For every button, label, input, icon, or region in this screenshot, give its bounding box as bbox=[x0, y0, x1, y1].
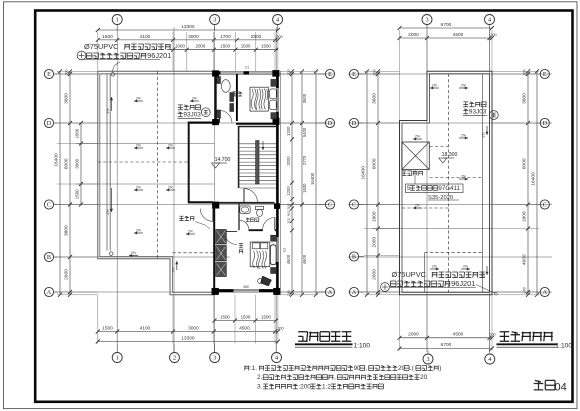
svg-text:200: 200 bbox=[287, 70, 291, 76]
water tank label bbox=[402, 171, 423, 176]
svg-text:2%: 2% bbox=[482, 133, 486, 138]
grid bubble 3 bottom right plan bbox=[423, 351, 433, 365]
toilet and basin bottom bathroom bbox=[240, 206, 264, 217]
svg-text:2%: 2% bbox=[461, 84, 466, 88]
svg-text:2%: 2% bbox=[461, 134, 466, 138]
svg-text:2600: 2600 bbox=[372, 269, 378, 280]
svg-text:E: E bbox=[543, 71, 547, 78]
grid bubble D right of left plan bbox=[318, 118, 335, 127]
svg-text:4: 4 bbox=[488, 356, 491, 363]
svg-text:2%: 2% bbox=[106, 109, 110, 114]
grid bubble 4 top bbox=[273, 15, 283, 31]
hall to terrace door arc bbox=[200, 209, 213, 222]
title five floor plan bbox=[295, 332, 370, 350]
svg-text:900: 900 bbox=[287, 210, 291, 216]
svg-text:2800: 2800 bbox=[251, 34, 262, 40]
svg-text:3.: 3. bbox=[257, 384, 263, 391]
column 4-E bbox=[273, 70, 280, 76]
svg-text:200: 200 bbox=[523, 287, 527, 293]
washbasin top bathroom bbox=[217, 77, 234, 119]
svg-text:C: C bbox=[352, 202, 356, 209]
svg-text:D: D bbox=[352, 120, 357, 127]
room label bathroom bbox=[246, 218, 259, 222]
svg-text:13300: 13300 bbox=[181, 24, 195, 30]
svg-text:2%: 2% bbox=[463, 265, 468, 269]
bottom dimension chain right plan bbox=[398, 295, 496, 351]
svg-text:1: 1 bbox=[116, 17, 119, 24]
grid bubble E right right plan bbox=[539, 69, 549, 78]
svg-text:1630: 1630 bbox=[302, 183, 307, 193]
svg-text:200: 200 bbox=[523, 70, 527, 76]
top block east wall with window bbox=[276, 71, 278, 125]
svg-text:6700: 6700 bbox=[441, 22, 452, 28]
svg-text:3600: 3600 bbox=[302, 93, 307, 103]
grid bubble D right right plan bbox=[539, 118, 549, 127]
stair treads bbox=[240, 144, 278, 188]
bedroom south wall with window bbox=[212, 289, 279, 292]
svg-text:1: 1 bbox=[116, 355, 119, 362]
svg-text:1:100: 1:100 bbox=[354, 343, 371, 350]
svg-text:1800: 1800 bbox=[372, 211, 378, 222]
svg-text:1500: 1500 bbox=[102, 326, 113, 332]
svg-text:2%: 2% bbox=[461, 175, 466, 179]
svg-text:.: . bbox=[426, 374, 428, 381]
grid bubble 4 bottom right plan bbox=[485, 351, 495, 365]
svg-text:1500: 1500 bbox=[261, 44, 271, 49]
hall west wall bbox=[188, 122, 190, 204]
svg-text:A: A bbox=[543, 289, 548, 296]
svg-text:A: A bbox=[328, 289, 333, 296]
top block west wall bbox=[214, 71, 216, 123]
bed bottom bedroom bbox=[250, 235, 276, 273]
top block north wall with windows bbox=[213, 72, 279, 75]
svg-text:1500: 1500 bbox=[220, 44, 230, 49]
level mark 18.300 roof bbox=[439, 152, 458, 163]
svg-text:A: A bbox=[352, 289, 357, 296]
stair hall lower door arc bbox=[244, 189, 257, 202]
svg-text:D: D bbox=[543, 120, 548, 127]
roof gutter line bbox=[482, 74, 484, 292]
bathroom bedroom divider wall bbox=[239, 204, 278, 231]
svg-text:2%: 2% bbox=[415, 204, 420, 208]
bedroom door arc bbox=[224, 232, 237, 245]
svg-text:C2: C2 bbox=[283, 248, 287, 253]
svg-text:3: 3 bbox=[426, 356, 429, 363]
east wall lower with bedroom window bbox=[276, 123, 278, 295]
svg-text:200: 200 bbox=[373, 70, 377, 76]
column at 4-D bbox=[273, 118, 279, 125]
svg-text:3: 3 bbox=[213, 17, 216, 24]
svg-text:,: , bbox=[365, 365, 367, 372]
grid bubble C left right plan bbox=[349, 200, 364, 209]
svg-text:E: E bbox=[328, 71, 332, 78]
grid bubble 1 bottom bbox=[112, 344, 122, 363]
bathroom shower door arc bbox=[239, 220, 249, 230]
grid bubble A right right plan bbox=[539, 287, 549, 296]
svg-text:2%: 2% bbox=[136, 144, 141, 148]
svg-text:3600: 3600 bbox=[64, 93, 70, 104]
svg-text:16400: 16400 bbox=[531, 172, 537, 186]
grid bubble C right right plan bbox=[539, 200, 549, 209]
svg-text:6000: 6000 bbox=[64, 158, 70, 169]
expansion joint annotation roof bbox=[463, 102, 498, 120]
svg-text:2%: 2% bbox=[432, 84, 437, 88]
svg-text:4100: 4100 bbox=[140, 34, 151, 40]
top dimension chain left plan bbox=[96, 24, 283, 71]
svg-text:2: 2 bbox=[173, 355, 176, 362]
svg-text:1000: 1000 bbox=[175, 44, 185, 49]
svg-text:2.: 2. bbox=[257, 374, 263, 381]
grid bubble E right of left plan bbox=[318, 69, 335, 78]
expansion joint dashed lines terrace bbox=[98, 71, 215, 258]
svg-text:E: E bbox=[47, 71, 51, 78]
svg-text:E: E bbox=[352, 71, 356, 78]
sheet number bbox=[534, 380, 567, 393]
stairwell enclosure bbox=[238, 127, 276, 189]
column 3-A bbox=[212, 288, 219, 294]
roof slope arrows bbox=[413, 84, 489, 278]
bottom dimension chain left plan bbox=[96, 295, 284, 344]
right dimension chain left plan bbox=[280, 69, 318, 296]
grid bubble E left right plan bbox=[349, 69, 364, 78]
svg-text:200: 200 bbox=[276, 35, 282, 39]
svg-text::1.: :1. bbox=[250, 365, 257, 372]
left dimension chain right plan bbox=[361, 69, 400, 296]
room label bedroom top (vertical) bbox=[233, 92, 243, 96]
roof ridge and valley dashed lines bbox=[402, 74, 484, 292]
roof outline outer bbox=[400, 71, 493, 294]
svg-text:Ø75UPVC: Ø75UPVC bbox=[392, 270, 427, 279]
svg-text:D: D bbox=[328, 120, 333, 127]
svg-text:C1: C1 bbox=[245, 66, 250, 70]
svg-text:1:2: 1:2 bbox=[322, 384, 331, 391]
room label bedroom bottom (vertical) bbox=[239, 244, 243, 254]
grid bubble 3 top bbox=[210, 15, 220, 31]
svg-text:C: C bbox=[543, 202, 547, 209]
wall between bath and bedroom top block bbox=[236, 74, 238, 121]
svg-text:1200: 1200 bbox=[286, 186, 291, 196]
column 3-E bbox=[212, 71, 218, 77]
svg-text:4600: 4600 bbox=[302, 254, 307, 264]
svg-text:4100: 4100 bbox=[140, 326, 151, 332]
svg-text:2%: 2% bbox=[136, 186, 141, 190]
D row wall bbox=[189, 123, 279, 124]
svg-text:2000: 2000 bbox=[196, 44, 206, 49]
grid bubble C right of left plan bbox=[318, 200, 335, 209]
svg-text:6700: 6700 bbox=[441, 342, 452, 348]
svg-text:200: 200 bbox=[65, 70, 69, 76]
floor drain bottom corner bbox=[109, 252, 113, 256]
east eave line bbox=[279, 71, 281, 294]
right dimension chain right plan bbox=[492, 69, 539, 296]
desk chair corner bbox=[258, 276, 272, 286]
svg-text:2%: 2% bbox=[168, 186, 173, 190]
grid bubble A right of left plan bbox=[318, 287, 335, 296]
roof outline inner bbox=[402, 74, 490, 292]
svg-text:2%: 2% bbox=[168, 144, 173, 148]
svg-text:96J201: 96J201 bbox=[147, 51, 171, 60]
svg-text:97G411: 97G411 bbox=[438, 185, 460, 192]
grid bubble E left bbox=[44, 69, 57, 78]
terrace parapet wall bbox=[98, 71, 215, 294]
svg-text:2%: 2% bbox=[106, 210, 110, 215]
expansion joint annotation left plan bbox=[178, 105, 211, 119]
bed top bedroom bbox=[250, 79, 277, 119]
svg-text:4500: 4500 bbox=[239, 326, 250, 332]
column 4-C bbox=[274, 204, 280, 209]
grid bubble 3 top right plan bbox=[422, 15, 432, 29]
grid bubble C left bbox=[44, 200, 57, 209]
grid bubble B left right plan bbox=[349, 252, 364, 261]
svg-text:16400: 16400 bbox=[310, 172, 315, 185]
svg-text:D: D bbox=[47, 120, 52, 127]
svg-text:2600: 2600 bbox=[64, 269, 70, 280]
svg-text:96J201: 96J201 bbox=[451, 279, 475, 288]
svg-text:A: A bbox=[47, 289, 52, 296]
svg-text:3000: 3000 bbox=[75, 158, 80, 168]
svg-text:2770: 2770 bbox=[302, 155, 307, 165]
svg-text:3: 3 bbox=[213, 355, 216, 362]
door top bathroom with arc bbox=[220, 111, 233, 124]
svg-text:B: B bbox=[352, 254, 356, 261]
svg-text:16400: 16400 bbox=[361, 166, 367, 180]
svg-text:1500: 1500 bbox=[241, 315, 251, 320]
grid axis lines left plan bbox=[55, 27, 335, 352]
svg-text:4500: 4500 bbox=[453, 32, 464, 38]
svg-text:13300: 13300 bbox=[181, 336, 195, 342]
grid bubble B left bbox=[44, 252, 57, 261]
grid bubble A left right plan bbox=[349, 287, 364, 296]
svg-text:4500: 4500 bbox=[453, 331, 464, 337]
column at 3-D bbox=[212, 119, 218, 125]
svg-text:Ø75UPVC: Ø75UPVC bbox=[84, 42, 119, 51]
grid bubble 4 bottom bbox=[272, 344, 282, 363]
svg-text:5: 5 bbox=[407, 185, 411, 192]
svg-text:): ) bbox=[439, 365, 441, 372]
svg-text:2%: 2% bbox=[192, 97, 197, 101]
svg-text:4600: 4600 bbox=[286, 254, 291, 264]
svg-text:3000: 3000 bbox=[188, 34, 199, 40]
svg-text:1200: 1200 bbox=[286, 126, 291, 136]
title roof plan bbox=[497, 332, 573, 350]
top dimension chain right plan bbox=[398, 22, 497, 121]
grid bubble D left right plan bbox=[349, 118, 364, 127]
bedroom west wall lower block bbox=[213, 204, 215, 295]
svg-text:2%: 2% bbox=[415, 135, 420, 139]
downpipe annotation roof plan bbox=[381, 270, 498, 295]
svg-text:04: 04 bbox=[555, 382, 567, 394]
svg-text:2%: 2% bbox=[136, 229, 141, 233]
level mark 14.700 bbox=[212, 157, 231, 168]
svg-text:3600: 3600 bbox=[522, 93, 528, 104]
floor drain top corner bbox=[111, 73, 115, 77]
bathroom north wall bbox=[219, 202, 275, 204]
stair center rail bbox=[256, 141, 265, 185]
terrace slope arrows bbox=[106, 97, 199, 273]
svg-text:2000: 2000 bbox=[372, 237, 378, 248]
svg-text:3: 3 bbox=[425, 17, 428, 24]
svg-text:2%: 2% bbox=[432, 265, 437, 269]
notes block bbox=[244, 365, 441, 390]
svg-text:700: 700 bbox=[287, 218, 291, 224]
svg-text:3000: 3000 bbox=[188, 326, 199, 332]
svg-text:2%: 2% bbox=[131, 251, 136, 255]
svg-text:C: C bbox=[328, 202, 332, 209]
bathroom east door arc bbox=[263, 218, 275, 230]
svg-text:6000: 6000 bbox=[522, 158, 528, 169]
svg-text:1500: 1500 bbox=[75, 128, 80, 138]
svg-text:4: 4 bbox=[276, 17, 279, 24]
svg-text:2000: 2000 bbox=[408, 32, 419, 38]
svg-text:2%: 2% bbox=[136, 97, 141, 101]
svg-text:3800: 3800 bbox=[64, 225, 70, 236]
svg-text:,: , bbox=[334, 374, 336, 381]
svg-text:200: 200 bbox=[489, 332, 495, 336]
svg-text:1700: 1700 bbox=[220, 34, 231, 40]
svg-text:6000: 6000 bbox=[372, 158, 378, 169]
column 3-C bbox=[212, 202, 219, 208]
svg-text:B: B bbox=[47, 254, 51, 261]
grid bubble D left bbox=[44, 118, 57, 127]
svg-text::200: :200 bbox=[298, 384, 311, 391]
svg-text:4: 4 bbox=[275, 355, 278, 362]
grid bubble A left bbox=[44, 287, 57, 296]
svg-text:93J03: 93J03 bbox=[183, 111, 201, 118]
grid bubble 4 top right plan bbox=[485, 15, 495, 29]
svg-text:200: 200 bbox=[287, 290, 291, 296]
svg-text:4: 4 bbox=[488, 17, 491, 24]
svg-text:2%: 2% bbox=[188, 230, 193, 234]
grid axis lines right plan bbox=[348, 27, 552, 352]
grid bubble 1 top bbox=[112, 15, 122, 31]
svg-text:1500: 1500 bbox=[261, 315, 271, 320]
hall south wall bbox=[189, 201, 213, 203]
left dimension chain left plan bbox=[54, 69, 98, 296]
svg-text:14.700: 14.700 bbox=[215, 157, 231, 163]
svg-text:93J03: 93J03 bbox=[469, 108, 487, 115]
svg-text:1:100: 1:100 bbox=[556, 343, 573, 350]
svg-text:18.300: 18.300 bbox=[442, 152, 458, 158]
grid bubble 2 bottom bbox=[170, 344, 180, 363]
svg-text:1500: 1500 bbox=[220, 315, 230, 320]
svg-text:200: 200 bbox=[277, 327, 283, 331]
svg-text:1500: 1500 bbox=[102, 34, 113, 40]
svg-text:1500: 1500 bbox=[241, 44, 251, 49]
column 4-A bbox=[274, 288, 281, 294]
svg-text:1800: 1800 bbox=[522, 211, 528, 222]
svg-text:1500: 1500 bbox=[75, 189, 80, 199]
svg-text:16400: 16400 bbox=[54, 153, 60, 167]
svg-text:C: C bbox=[47, 202, 51, 209]
grid bubble 3 bottom bbox=[210, 344, 220, 363]
downpipe annotation top left bbox=[77, 42, 171, 72]
roof interior line near stair bbox=[424, 253, 426, 293]
svg-text:2%: 2% bbox=[171, 268, 175, 273]
svg-text:4600: 4600 bbox=[522, 254, 528, 265]
svg-text:5400: 5400 bbox=[302, 127, 307, 137]
roof water tank bbox=[402, 142, 430, 170]
svg-text:3200: 3200 bbox=[286, 156, 291, 166]
hot water line label bbox=[179, 216, 210, 229]
closet hatched units bbox=[216, 230, 227, 277]
svg-text:2000: 2000 bbox=[408, 331, 419, 337]
svg-text:450: 450 bbox=[243, 285, 249, 289]
water tank spec box bbox=[406, 170, 464, 201]
svg-text:3600: 3600 bbox=[372, 93, 378, 104]
svg-text:200: 200 bbox=[490, 33, 496, 37]
